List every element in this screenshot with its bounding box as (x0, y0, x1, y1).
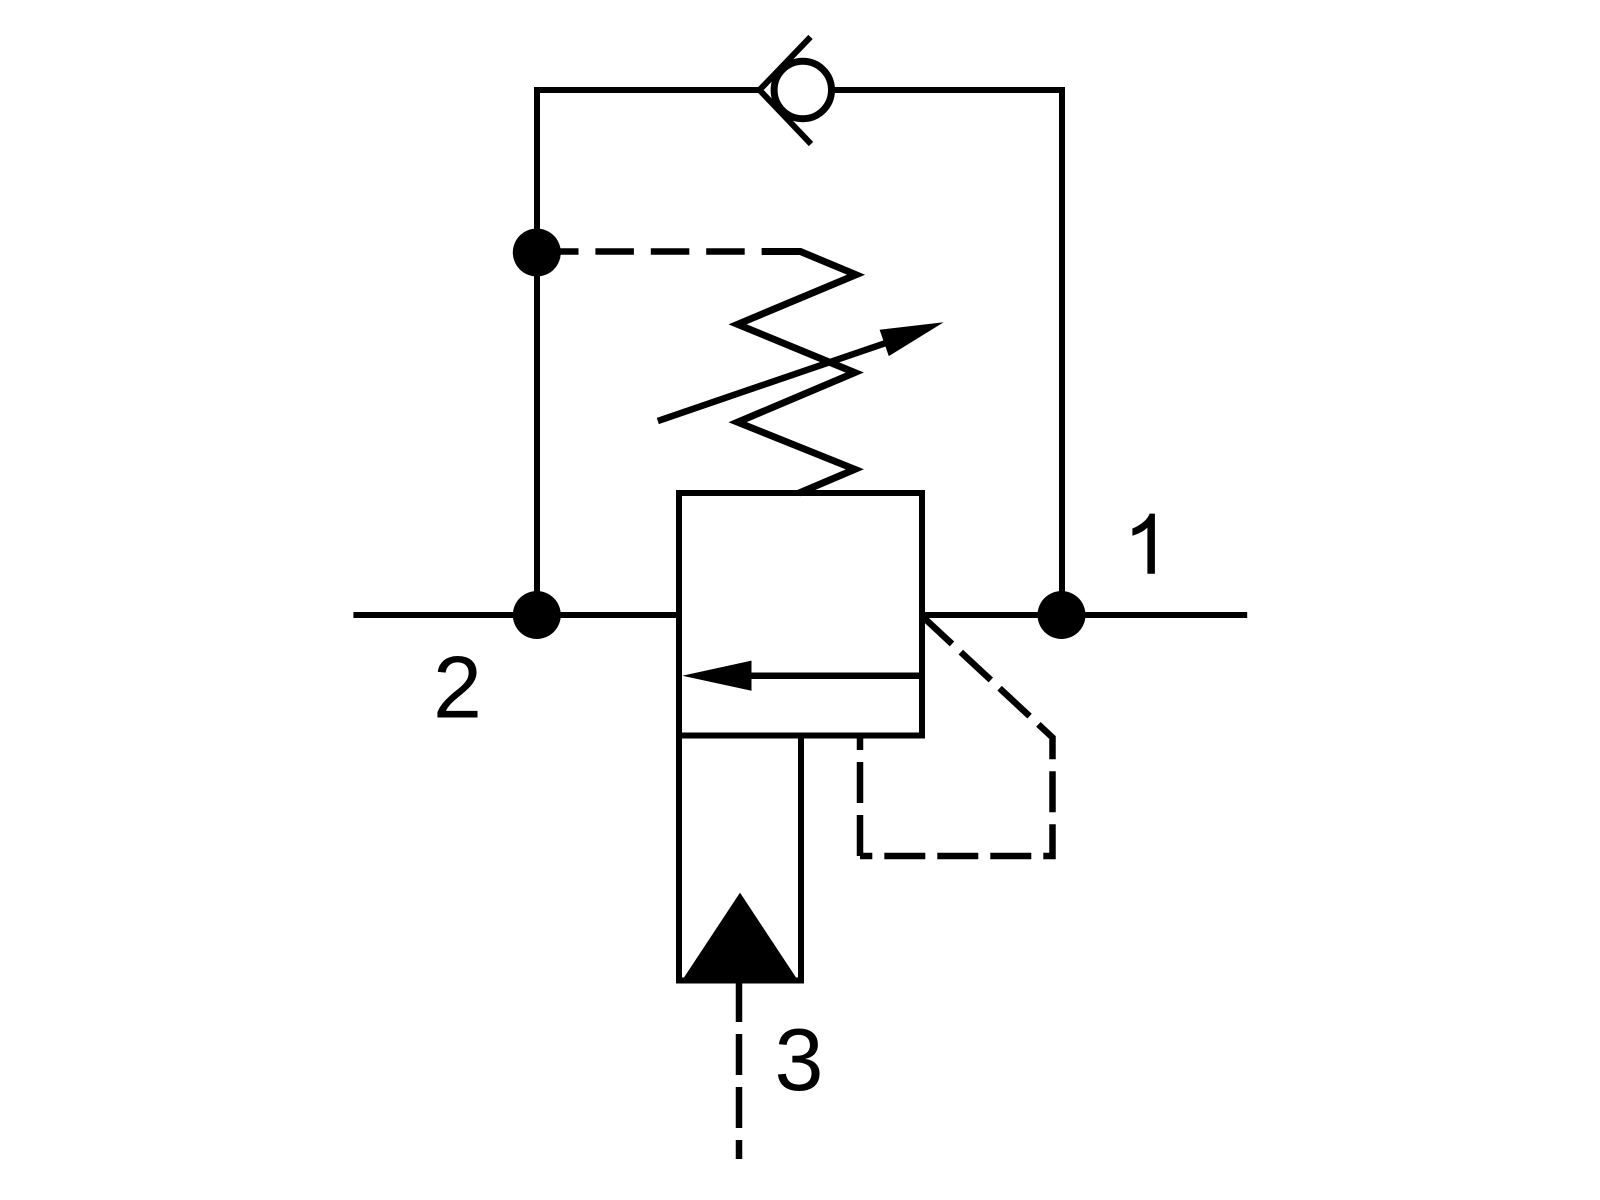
wire dashed pilot line to spring (540, 248, 801, 255)
wire dashed pilot box (right side) (860, 616, 1053, 856)
actuator body rectangle below valve (679, 736, 801, 981)
adjustment arrow across spring (658, 322, 944, 421)
wire dashed pilot box left vertical (857, 737, 864, 856)
wire right vertical (1059, 87, 1065, 615)
wire main line left (port 2) (353, 612, 679, 618)
node junction dot upper-left (513, 229, 561, 277)
node junction dot port 2 (513, 591, 561, 639)
valve envelope box (679, 493, 922, 736)
svg-text:3: 3 (775, 1010, 824, 1109)
wire main line right (port 1) (922, 612, 1247, 618)
check valve CV1 (760, 37, 832, 144)
wire top-left horizontal segment (537, 87, 760, 93)
flow arrow inside valve (points left) (682, 661, 922, 691)
label port 1 (1132, 514, 1155, 574)
wire top-right horizontal segment (834, 87, 1062, 93)
wire dashed drain line to port 3 (736, 981, 743, 1159)
solid pilot triangle (points up) (682, 893, 798, 981)
spring (adjustable) (738, 252, 856, 494)
wire left vertical (534, 87, 540, 615)
node junction dot port 1 (1038, 591, 1086, 639)
svg-text:2: 2 (433, 638, 482, 737)
